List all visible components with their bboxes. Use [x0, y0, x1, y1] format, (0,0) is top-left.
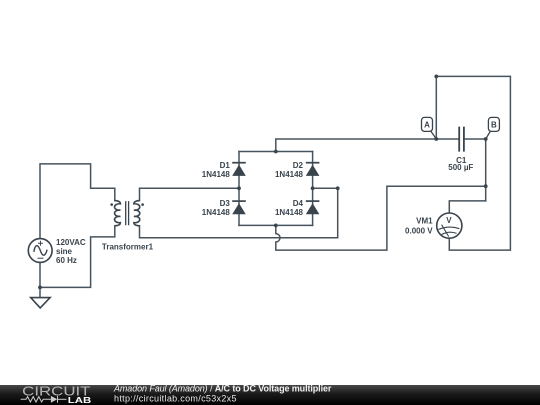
svg-text:D1: D1	[220, 161, 231, 170]
wire V1 bottom lead	[39, 262, 41, 297]
svg-text:1N4148: 1N4148	[202, 208, 231, 217]
svg-text:D2: D2	[293, 161, 304, 170]
wire node B riser	[485, 139, 487, 201]
junction bridge bottom	[274, 224, 278, 228]
wire bridge top horizontal	[239, 151, 313, 153]
wire secondary top to bridge	[140, 188, 240, 200]
svg-text:B: B	[491, 120, 497, 129]
svg-text:D4: D4	[293, 199, 304, 208]
junction bridge mid-left	[237, 186, 241, 190]
svg-text:sine: sine	[56, 247, 73, 256]
node A flag	[422, 117, 437, 139]
wire bridge left vertical	[238, 152, 240, 226]
junction secondary bottom riser	[336, 186, 340, 190]
diode D3	[232, 201, 246, 214]
svg-text:1N4148: 1N4148	[202, 170, 231, 179]
wire bridge top output to node A	[276, 139, 437, 152]
svg-text:V: V	[446, 216, 452, 225]
primary phase dot	[110, 203, 113, 206]
wire bridge right vertical	[312, 152, 314, 226]
transformer T1	[115, 201, 140, 226]
wire secondary bottom to bridge right	[140, 188, 338, 237]
ground	[31, 298, 50, 308]
capacitor C1	[459, 127, 464, 152]
junction B riser / bottom output	[484, 184, 488, 188]
svg-text:VM1: VM1	[416, 217, 433, 226]
voltmeter VM1	[437, 213, 462, 238]
wire capacitor left lead	[436, 138, 459, 140]
svg-text:Transformer1: Transformer1	[102, 242, 154, 251]
wire bridge mid-right stub	[313, 187, 338, 189]
node B junction	[484, 137, 488, 141]
svg-text:500 µF: 500 µF	[448, 163, 473, 172]
wire V1 top lead	[40, 164, 115, 239]
secondary phase dot	[141, 203, 144, 206]
wire bridge bottom horizontal	[239, 224, 313, 226]
svg-text:http://circuitlab.com/c53x2x5: http://circuitlab.com/c53x2x5	[114, 393, 237, 403]
svg-text:1N4148: 1N4148	[275, 170, 304, 179]
node B flag	[486, 117, 500, 139]
junction bridge mid-right	[311, 186, 315, 190]
logo resistor-diode glyph	[21, 396, 67, 403]
svg-text:Amadon Faul (Amadon) / A/C to: Amadon Faul (Amadon) / A/C to DC Voltage…	[113, 383, 332, 393]
diode D1	[232, 163, 246, 176]
wire bridge bottom output with crossover	[276, 186, 486, 250]
primary coil	[115, 201, 121, 226]
wire node A riser and top loop to VM bottom	[436, 76, 510, 250]
svg-text:D3: D3	[220, 199, 231, 208]
footer bar	[0, 385, 540, 405]
wire capacitor right lead	[464, 138, 486, 140]
junction top-left corner of VM loop	[434, 75, 438, 79]
svg-text:A: A	[424, 120, 430, 129]
wire primary bottom return	[40, 226, 115, 288]
diode D4	[306, 201, 320, 214]
svg-text:120VAC: 120VAC	[56, 238, 86, 247]
voltage source V1	[28, 239, 52, 263]
svg-text:0.000 V: 0.000 V	[405, 227, 433, 236]
node A junction	[434, 137, 438, 141]
svg-text:60 Hz: 60 Hz	[56, 256, 77, 265]
junction node at V1 bottom	[38, 286, 42, 290]
core	[126, 201, 129, 225]
svg-text:LAB: LAB	[68, 396, 92, 405]
svg-text:1N4148: 1N4148	[275, 208, 304, 217]
secondary coil	[134, 201, 140, 226]
diode D2	[306, 163, 320, 176]
junction bridge top	[274, 150, 278, 154]
wire VM top staircase	[449, 201, 485, 213]
